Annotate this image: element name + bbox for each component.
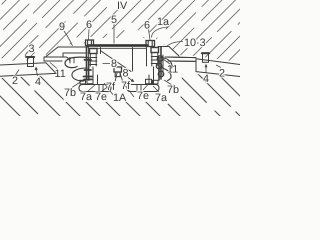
leader 4 left arrow	[36, 69, 38, 77]
svg-text:8: 8	[123, 68, 129, 80]
seal 6 right	[146, 41, 155, 47]
right plate diagonal edge	[169, 47, 179, 57]
left outer wall	[85, 46, 87, 80]
leader 7e right	[143, 85, 148, 91]
bracket 11 left bottom	[44, 60, 62, 62]
left clip arm lower	[72, 68, 87, 81]
leader 6 right	[149, 29, 151, 40]
bracket 11 right bottom	[168, 60, 196, 62]
right ladder rungs	[151, 57, 158, 64]
leader 7b right	[164, 80, 172, 85]
leader 7a right	[153, 86, 159, 92]
panel 2 right bottom edge	[196, 72, 240, 77]
leader 8 dash	[103, 63, 111, 65]
svg-text:4: 4	[35, 76, 41, 88]
stud 4 left cap	[27, 56, 34, 58]
svg-text:6: 6	[86, 19, 92, 31]
right clip arm lower	[160, 67, 171, 81]
left clip arm upper	[65, 57, 88, 68]
leader 9	[64, 31, 73, 46]
interior right wall	[146, 48, 148, 67]
housing 5 top thin line	[89, 47, 146, 49]
foot pad left ticks	[99, 85, 103, 92]
HATCH_TOP	[2, 0, 6, 4]
cover plate 9 inner line	[63, 53, 87, 57]
svg-text:10·3: 10·3	[184, 37, 206, 49]
left pad stem	[93, 67, 98, 85]
svg-text:7a: 7a	[80, 91, 92, 103]
arrowhead 4 left	[35, 67, 38, 71]
svg-text:1a: 1a	[157, 16, 169, 28]
center stems	[115, 73, 124, 84]
foot pad left	[79, 85, 111, 92]
svg-text:9: 9	[59, 21, 65, 33]
foot pad right	[127, 85, 159, 92]
svg-text:7a: 7a	[155, 92, 167, 104]
leader 11 right	[163, 59, 170, 64]
top hatched block	[0, 0, 242, 118]
leader 2 right	[216, 65, 221, 68]
center block	[114, 67, 122, 72]
svg-text:2: 2	[219, 68, 225, 80]
leader 8 right arrow	[128, 78, 133, 81]
panel 2 left end cut	[46, 63, 56, 74]
bracket 11 right top repaint	[165, 56, 196, 59]
leader 7e left	[102, 86, 109, 91]
leader 7f right	[124, 84, 134, 97]
leader 7a left	[88, 84, 96, 91]
arrowhead 8 right	[130, 79, 134, 82]
right outer wall	[160, 47, 162, 79]
arrowhead 4 right	[205, 64, 208, 68]
interior diagonal	[101, 51, 131, 72]
right clip column	[158, 57, 160, 80]
svg-text:7f: 7f	[121, 80, 131, 92]
svg-text:7e: 7e	[137, 90, 149, 102]
svg-text:11: 11	[55, 68, 66, 80]
leader 1a	[152, 27, 169, 38]
cover plate 9 diagonal edge	[46, 47, 58, 57]
leader 10-3	[167, 42, 184, 47]
right foot blobs	[157, 56, 163, 62]
stud 4 left body	[28, 57, 34, 67]
bottom hatched block	[0, 0, 242, 118]
leader 3	[25, 52, 28, 58]
right pad stem	[149, 67, 154, 85]
leader 5	[113, 24, 115, 44]
bracket 11 left end	[43, 57, 45, 61]
leader 4 right arrow	[205, 66, 207, 74]
left clip column	[88, 58, 90, 80]
panel 2 right end	[195, 59, 197, 72]
svg-text:1A: 1A	[113, 92, 127, 104]
leader 2 left	[16, 70, 20, 76]
panel 2 left bottom edge	[0, 73, 56, 76]
bracket 11 left top	[44, 57, 70, 62]
left ladder rungs	[90, 58, 97, 65]
leader 11 left	[50, 63, 57, 69]
svg-text:7b: 7b	[64, 87, 76, 99]
left tab	[70, 57, 74, 63]
right clip arm upper	[161, 58, 172, 71]
bracket 11 right bottom repaint	[168, 60, 196, 62]
svg-text:3: 3	[29, 43, 35, 55]
right ladder rails	[152, 53, 158, 67]
svg-text:2: 2	[12, 75, 18, 87]
left foot blobs	[84, 60, 93, 80]
svg-text:11: 11	[167, 64, 178, 76]
foot pad right ticks	[137, 85, 141, 92]
housing 5 top bar	[87, 44, 148, 47]
svg-text:6: 6	[144, 20, 150, 32]
stud 4 right body	[203, 53, 209, 63]
leader 6 left	[88, 29, 91, 40]
panel 2 left top edge	[0, 63, 46, 65]
svg-text:8: 8	[111, 58, 117, 70]
svg-text:7b: 7b	[167, 84, 179, 96]
HATCH_BOT	[0, 95, 22, 118]
left ladder rails	[90, 54, 96, 67]
bracket 11 right top	[165, 56, 196, 59]
leader 7f left	[104, 83, 114, 96]
panel 2 right top edge	[196, 59, 240, 65]
right ladder box	[151, 48, 159, 53]
right plate top edge	[158, 46, 169, 48]
svg-text:IV: IV	[117, 0, 128, 12]
left ladder box	[90, 49, 98, 54]
interior tall line	[132, 48, 134, 72]
seal 6 left	[86, 40, 94, 46]
leader 7b left	[72, 80, 84, 88]
right pad attach bits	[146, 79, 152, 83]
svg-text:4: 4	[203, 73, 209, 85]
cover plate 9 top edge	[58, 46, 88, 48]
interior left wall	[100, 48, 102, 54]
svg-text:5: 5	[111, 14, 117, 26]
stud 4 right cap	[202, 52, 209, 54]
left pad attach bits	[80, 80, 86, 84]
